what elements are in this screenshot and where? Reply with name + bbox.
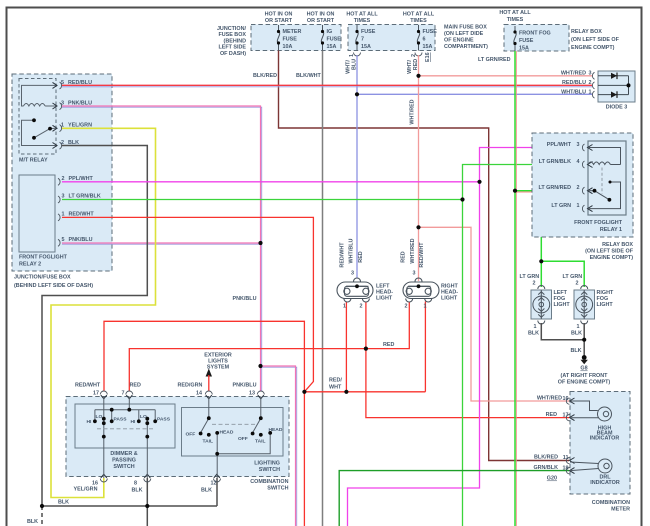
M/T relay pin marks bbox=[53, 82, 58, 148]
svg-text:17: 17 bbox=[93, 391, 99, 397]
wire BLK pin 12 drop bbox=[216, 478, 218, 506]
svg-text:GRN/BLK: GRN/BLK bbox=[533, 465, 558, 471]
svg-text:RED: RED bbox=[130, 383, 141, 389]
front foglight relay 1 inner box bbox=[588, 141, 626, 215]
svg-text:17: 17 bbox=[563, 413, 569, 419]
svg-text:SWITCH: SWITCH bbox=[113, 464, 134, 470]
svg-text:M/T RELAY: M/T RELAY bbox=[19, 158, 48, 164]
svg-text:BLU: BLU bbox=[352, 59, 358, 70]
junction dot PPL/WHT bbox=[477, 180, 481, 184]
svg-text:OFF: OFF bbox=[238, 436, 248, 442]
front fog fuse 15A bbox=[513, 26, 550, 52]
svg-text:TIMES: TIMES bbox=[507, 17, 524, 23]
svg-text:LT GRN/BLK: LT GRN/BLK bbox=[69, 194, 101, 200]
svg-text:COMBINATION: COMBINATION bbox=[592, 500, 630, 506]
svg-text:FUSE: FUSE bbox=[327, 37, 342, 43]
front foglight relay 2 box bbox=[19, 175, 55, 252]
svg-text:2: 2 bbox=[360, 304, 363, 310]
ground G8 bbox=[582, 355, 587, 360]
combination meter pin labels bbox=[533, 396, 562, 472]
svg-text:PPL/WHT: PPL/WHT bbox=[547, 142, 572, 148]
relay box label below bbox=[585, 242, 634, 261]
svg-text:3: 3 bbox=[351, 271, 354, 277]
junction dot BLK rail left bbox=[40, 504, 44, 508]
meter fuse 10A bbox=[277, 25, 302, 51]
svg-text:(BEHIND: (BEHIND bbox=[224, 38, 247, 44]
svg-text:RED/WHT: RED/WHT bbox=[75, 383, 101, 389]
combination switch bottom pin arcs bbox=[100, 479, 220, 483]
svg-text:BLK/WHT: BLK/WHT bbox=[296, 73, 322, 79]
svg-text:PASS: PASS bbox=[157, 417, 171, 423]
svg-text:BLK: BLK bbox=[571, 331, 582, 337]
dimmer switch mechanical dashed link bbox=[97, 428, 154, 430]
svg-text:DIODE 3: DIODE 3 bbox=[606, 105, 628, 111]
wire RED/WHT left headlight pin 1 drop bbox=[345, 302, 347, 392]
wire PNK/BLU from front foglight relay 2 pin 5 bbox=[62, 243, 262, 245]
front foglight relay 1 coil bbox=[588, 148, 621, 165]
svg-text:FUSE BOX: FUSE BOX bbox=[218, 32, 246, 38]
svg-text:RELAY BOX: RELAY BOX bbox=[571, 29, 602, 35]
svg-text:RED: RED bbox=[546, 412, 557, 418]
svg-text:WHT/RED: WHT/RED bbox=[561, 71, 586, 77]
svg-text:WHT/RED: WHT/RED bbox=[410, 99, 416, 124]
svg-text:1: 1 bbox=[577, 203, 580, 209]
svg-text:3: 3 bbox=[413, 271, 416, 277]
svg-text:7: 7 bbox=[361, 37, 364, 43]
svg-text:INDICATOR: INDICATOR bbox=[590, 480, 620, 486]
wire RED/WHT off page bottom bbox=[303, 392, 305, 526]
svg-text:RED/: RED/ bbox=[329, 378, 342, 384]
M/T relay pin numbers and wire labels bbox=[61, 80, 92, 146]
svg-text:7: 7 bbox=[122, 391, 125, 397]
wire BLK fog lights to ground bbox=[541, 323, 584, 340]
svg-text:G8: G8 bbox=[580, 366, 587, 372]
svg-text:HOT AT ALL: HOT AT ALL bbox=[346, 12, 378, 18]
svg-text:RELAY 2: RELAY 2 bbox=[19, 262, 41, 268]
svg-text:E16: E16 bbox=[425, 52, 431, 62]
M/T relay inner dashed box bbox=[19, 79, 56, 155]
wire WHT/RED branch to combination meter pin 16 bbox=[419, 227, 570, 401]
svg-text:LIGHT: LIGHT bbox=[441, 296, 458, 302]
svg-text:TIMES: TIMES bbox=[410, 18, 427, 24]
svg-text:2: 2 bbox=[589, 80, 592, 86]
svg-text:1: 1 bbox=[534, 324, 537, 330]
wire LT GRN from relay 1 pin 1 to fog lights bbox=[541, 209, 586, 287]
svg-text:FRONT FOGLIGHT: FRONT FOGLIGHT bbox=[19, 255, 68, 261]
svg-text:(ON LEFT SIDE OF: (ON LEFT SIDE OF bbox=[585, 249, 634, 255]
wire BLK/RED from meter fuse to combination meter pin 11 bbox=[279, 51, 570, 461]
svg-text:BLK: BLK bbox=[528, 331, 539, 337]
wire BLK ground rail bottom bbox=[42, 505, 217, 507]
hot in on or start label 1 bbox=[265, 12, 293, 25]
front foglight relay 1 pin arcs and arrows bbox=[582, 144, 584, 212]
svg-text:1: 1 bbox=[424, 304, 427, 310]
exterior lights system arrow and label bbox=[204, 353, 232, 371]
svg-text:15A: 15A bbox=[361, 44, 371, 50]
svg-text:PASS: PASS bbox=[114, 417, 128, 423]
svg-text:BLK/RED: BLK/RED bbox=[534, 455, 558, 461]
wire RED/WHT from relay 2 pin 1 bbox=[62, 217, 313, 391]
junction dot RED/WHT left headlight bbox=[344, 390, 348, 394]
svg-text:HI: HI bbox=[131, 419, 137, 425]
svg-text:RELAY BOX: RELAY BOX bbox=[602, 242, 633, 248]
right headlight label bbox=[441, 284, 458, 302]
wire RED/WHT headlight tie rail bbox=[304, 391, 425, 393]
svg-text:16: 16 bbox=[563, 396, 569, 402]
svg-text:PASSING: PASSING bbox=[112, 458, 136, 464]
svg-text:2: 2 bbox=[577, 185, 580, 191]
wire YEL/GRN from M/T relay pin 1 to dimmer switch pin 16 bbox=[51, 128, 156, 497]
wire GRN/BLK from combination meter pin 18 off page bbox=[339, 471, 569, 526]
svg-text:JUNCTION/: JUNCTION/ bbox=[217, 26, 247, 32]
right fog light bbox=[574, 290, 595, 319]
svg-text:RED/GRN: RED/GRN bbox=[178, 383, 203, 389]
svg-text:(ON LEFT SIDE OF: (ON LEFT SIDE OF bbox=[571, 37, 620, 43]
svg-text:WHT/RED: WHT/RED bbox=[410, 238, 416, 263]
junction/fuse box (behind left side of dash) dashed box bbox=[12, 74, 112, 271]
svg-text:OR START: OR START bbox=[307, 18, 335, 24]
wire BLK from M/T relay pin 2 to ground rail bbox=[42, 146, 147, 507]
svg-text:WHT/RED: WHT/RED bbox=[537, 396, 562, 402]
main fuse box dashed box with fuse 7 and fuse 6 bbox=[348, 25, 435, 51]
svg-text:FUSE: FUSE bbox=[519, 38, 534, 44]
junction dot BLK rail mid bbox=[145, 504, 149, 508]
svg-text:MAIN FUSE BOX: MAIN FUSE BOX bbox=[444, 25, 487, 31]
wire RED/WHT from dimmer switch pin 17 bbox=[104, 321, 304, 392]
svg-text:FUSE: FUSE bbox=[361, 29, 376, 35]
dimmer and passing switch label bbox=[110, 451, 137, 470]
svg-text:LT GRN/RED: LT GRN/RED bbox=[478, 57, 511, 63]
hot at all times label 1 bbox=[346, 12, 378, 25]
svg-text:2: 2 bbox=[405, 304, 408, 310]
wire BLK/WHT from IG fuse off page bottom bbox=[322, 51, 324, 526]
wire PPL/WHT from relay 2 pin 2 to relay 1 pin 3 and off page bbox=[62, 181, 480, 183]
svg-text:3: 3 bbox=[589, 71, 592, 77]
svg-text:HEAD: HEAD bbox=[269, 427, 283, 433]
svg-text:5: 5 bbox=[62, 237, 65, 243]
svg-text:2: 2 bbox=[411, 54, 417, 57]
pin 1 arc below fuse 7 bbox=[354, 53, 361, 57]
svg-text:METER: METER bbox=[283, 29, 302, 35]
svg-text:DIMMER &: DIMMER & bbox=[110, 451, 137, 457]
right headlight bbox=[403, 278, 439, 302]
front foglight relay 1 armature dashed link bbox=[601, 168, 603, 195]
svg-text:FRONT FOGLIGHT: FRONT FOGLIGHT bbox=[574, 220, 623, 226]
svg-text:15A: 15A bbox=[519, 46, 529, 52]
diode 3 box bbox=[598, 71, 635, 102]
svg-text:14: 14 bbox=[196, 391, 202, 397]
svg-text:LT GRN: LT GRN bbox=[520, 274, 540, 280]
svg-text:LIGHTING: LIGHTING bbox=[254, 461, 280, 467]
svg-text:OFF: OFF bbox=[186, 432, 196, 438]
svg-text:RED/WHT: RED/WHT bbox=[69, 212, 95, 218]
wire BLK pin 8 drop off page bbox=[146, 478, 148, 526]
svg-text:1: 1 bbox=[577, 324, 580, 330]
svg-text:2: 2 bbox=[62, 176, 65, 182]
svg-text:WHT: WHT bbox=[329, 385, 342, 391]
svg-text:LT GRN/BLK: LT GRN/BLK bbox=[539, 159, 571, 165]
wire BLK dashed continuation off page bbox=[41, 506, 43, 526]
wire RED/GRN arrow to lighting switch pin 14 bbox=[208, 375, 210, 392]
svg-text:ENGINE COMPT): ENGINE COMPT) bbox=[590, 255, 634, 261]
svg-text:BLK: BLK bbox=[132, 488, 143, 494]
svg-text:HI: HI bbox=[87, 419, 93, 425]
svg-text:1: 1 bbox=[589, 90, 592, 96]
M/T relay coil between pin 5 and pin 3 bbox=[22, 85, 57, 106]
relay box (on left side of engine compt) label top bbox=[571, 29, 620, 51]
svg-text:WHT/BLU: WHT/BLU bbox=[349, 238, 355, 263]
svg-text:OR START: OR START bbox=[265, 18, 293, 24]
svg-text:PNK/BLU: PNK/BLU bbox=[69, 237, 93, 243]
wire WHT/BLU from fuse 7 to left headlight pin 3 bbox=[356, 55, 358, 278]
svg-text:RED: RED bbox=[401, 251, 407, 262]
front foglight relay 1 switch bbox=[588, 182, 621, 209]
svg-text:PNK/BLU: PNK/BLU bbox=[233, 383, 257, 389]
fuse 6 15A bbox=[417, 25, 437, 51]
svg-text:HOT AT ALL: HOT AT ALL bbox=[403, 12, 435, 18]
M/T relay switch pin 1 / pin 2 bbox=[22, 120, 57, 145]
diode symbols bbox=[611, 73, 617, 79]
wire PNK/BLU from M/T relay pin 3 down to lighting switch pin 13 bbox=[62, 107, 262, 391]
svg-text:LT GRN/RED: LT GRN/RED bbox=[538, 185, 571, 191]
dimmer switch internal wiring bbox=[95, 397, 155, 479]
wire LT GRN/RED from front fog fuse to relay 1 pin 2 and off page bbox=[515, 51, 517, 526]
svg-text:HOT IN ON: HOT IN ON bbox=[307, 12, 335, 18]
left headlight bbox=[337, 278, 373, 302]
combination switch dashed box bbox=[66, 397, 289, 477]
svg-text:SWITCH: SWITCH bbox=[259, 467, 280, 473]
svg-text:2: 2 bbox=[576, 281, 579, 287]
svg-text:SWITCH: SWITCH bbox=[267, 486, 288, 492]
svg-text:SYSTEM: SYSTEM bbox=[207, 365, 230, 371]
svg-text:1: 1 bbox=[349, 54, 355, 57]
wire RED/WHT right headlight pin 1 drop bbox=[424, 302, 426, 392]
svg-text:OF ENGINE: OF ENGINE bbox=[444, 38, 474, 44]
wire PNK/BLU branch off page bottom bbox=[261, 367, 297, 526]
junction dot WHT/RED top bbox=[416, 74, 420, 78]
wire RED/BLU from M/T relay pin 5 to diode 3 pin 2 bbox=[62, 86, 592, 88]
relay box dashed box around front foglight relay 1 bbox=[532, 133, 633, 237]
svg-text:RED/WHT: RED/WHT bbox=[340, 242, 346, 268]
svg-text:LIGHT: LIGHT bbox=[597, 302, 614, 308]
svg-text:HEAD: HEAD bbox=[220, 430, 234, 436]
svg-text:RED: RED bbox=[383, 342, 394, 348]
svg-text:BLK: BLK bbox=[201, 488, 212, 494]
hot at all times label 2 bbox=[403, 12, 435, 25]
svg-text:FUSE: FUSE bbox=[423, 29, 438, 35]
svg-text:YEL/GRN: YEL/GRN bbox=[74, 487, 98, 493]
wire RED from dimmer pin 7 to headlights pin 2 bbox=[129, 302, 409, 391]
junction dot RED/WHT rail bbox=[302, 390, 306, 394]
svg-text:LT GRN: LT GRN bbox=[551, 203, 571, 209]
svg-text:WHT/BLU: WHT/BLU bbox=[561, 90, 586, 96]
svg-text:11: 11 bbox=[563, 455, 569, 461]
svg-text:LO: LO bbox=[96, 414, 103, 420]
hot in on or start label 2 bbox=[307, 12, 335, 25]
junction dot LT GRN bbox=[539, 259, 543, 263]
combination switch top pin arcs bbox=[100, 391, 264, 394]
lighting switch contact dots bbox=[199, 416, 272, 455]
svg-text:(AT RIGHT FRONT: (AT RIGHT FRONT bbox=[561, 373, 609, 379]
svg-text:(ON LEFT DIDE: (ON LEFT DIDE bbox=[444, 31, 484, 37]
svg-text:COMBINATION: COMBINATION bbox=[250, 479, 288, 485]
svg-text:LO: LO bbox=[140, 414, 147, 420]
svg-text:FRONT FOG: FRONT FOG bbox=[519, 31, 551, 37]
junction dot WHT/BLU bbox=[355, 92, 359, 96]
diode 3 pin arcs bbox=[592, 72, 594, 98]
junction dot RED bbox=[364, 347, 368, 351]
junction fuse box (dash) dashed box with METER and IG fuses bbox=[251, 25, 341, 51]
svg-text:ENGINE COMPT): ENGINE COMPT) bbox=[571, 45, 615, 51]
wire WHT/RED branch to diode 3 pin 3 bbox=[419, 75, 593, 77]
main fuse box label bbox=[444, 25, 488, 51]
svg-text:PNK/BLU: PNK/BLU bbox=[233, 296, 257, 302]
svg-text:10A: 10A bbox=[283, 44, 293, 50]
svg-text:12: 12 bbox=[211, 481, 217, 487]
svg-text:3: 3 bbox=[577, 142, 580, 148]
front foglight relay 1 pin labels bbox=[538, 142, 571, 209]
svg-text:3: 3 bbox=[62, 194, 65, 200]
wire LT GRN/BLK from relay 2 pin 3 to relay 1 pin 4 and off page bbox=[62, 199, 463, 201]
junction dot LT GRN/RED bbox=[513, 189, 517, 193]
dimmer switch position labels bbox=[87, 414, 171, 425]
combination meter pin arcs bbox=[566, 398, 569, 474]
junction dot LT GRN/BLK bbox=[460, 197, 464, 201]
svg-text:METER: METER bbox=[611, 507, 630, 513]
svg-text:6: 6 bbox=[423, 37, 426, 43]
svg-text:TAIL: TAIL bbox=[255, 439, 266, 445]
svg-text:JUNCTION/FUSE BOX: JUNCTION/FUSE BOX bbox=[14, 275, 71, 281]
svg-text:BLK: BLK bbox=[27, 519, 38, 525]
high beam indicator bbox=[570, 401, 612, 421]
wire RED left headlight pin 2 to meter pin 17 bbox=[366, 302, 569, 418]
ig fuse 15A bbox=[321, 25, 341, 51]
front foglight relay 2 pin arcs bbox=[58, 178, 60, 246]
svg-text:LEFT SIDE: LEFT SIDE bbox=[218, 45, 246, 51]
left fog light bbox=[531, 290, 552, 319]
combination meter dashed box bbox=[570, 392, 630, 495]
diode 3 pin labels bbox=[561, 71, 586, 96]
svg-text:(BEHIND LEFT SIDE OF DASH): (BEHIND LEFT SIDE OF DASH) bbox=[14, 283, 93, 289]
svg-text:IG: IG bbox=[327, 29, 333, 35]
svg-text:LIGHT: LIGHT bbox=[554, 302, 571, 308]
dimmer and passing switch inner box bbox=[75, 404, 175, 448]
svg-text:BLK: BLK bbox=[571, 348, 582, 354]
svg-text:BLK: BLK bbox=[58, 500, 69, 506]
junction dot PNK/BLU bbox=[258, 241, 262, 245]
front foglight relay 2 pin numbers and labels bbox=[62, 176, 101, 243]
svg-text:LIGHT: LIGHT bbox=[376, 296, 393, 302]
svg-text:15A: 15A bbox=[423, 44, 433, 50]
svg-text:TAIL: TAIL bbox=[203, 439, 214, 445]
svg-text:4: 4 bbox=[577, 159, 580, 165]
wire WHT/RED from fuse 6 to right headlight pin 3 bbox=[418, 55, 420, 281]
diode 3 internal wiring bbox=[598, 76, 629, 95]
svg-text:RED: RED bbox=[413, 59, 419, 70]
svg-text:1: 1 bbox=[62, 212, 65, 218]
lighting switch internal wiring bbox=[201, 397, 270, 479]
left headlight label bbox=[376, 284, 393, 302]
wire WHT/BLU branch to diode 3 pin 1 bbox=[357, 93, 592, 95]
svg-text:TIMES: TIMES bbox=[354, 18, 371, 24]
diode 3 junction dot bbox=[627, 83, 631, 87]
svg-text:2: 2 bbox=[533, 281, 536, 287]
svg-text:15A: 15A bbox=[327, 44, 337, 50]
svg-text:RED/BLU: RED/BLU bbox=[562, 80, 586, 86]
svg-text:BLK/RED: BLK/RED bbox=[253, 73, 277, 79]
relay box dashed box with front fog fuse bbox=[504, 25, 569, 52]
svg-text:HOT IN ON: HOT IN ON bbox=[265, 12, 293, 18]
lighting switch inner box bbox=[182, 408, 284, 457]
svg-text:1: 1 bbox=[343, 304, 346, 310]
junction dot PNK/BLU lower bbox=[258, 364, 262, 368]
svg-text:RELAY 1: RELAY 1 bbox=[600, 227, 622, 233]
svg-text:HOT AT ALL: HOT AT ALL bbox=[499, 10, 531, 16]
svg-text:COMPARTMENT): COMPARTMENT) bbox=[444, 44, 488, 50]
lighting switch mechanical dashed link bbox=[212, 423, 257, 425]
svg-text:18: 18 bbox=[563, 466, 569, 472]
svg-text:INDICATOR: INDICATOR bbox=[590, 436, 620, 442]
svg-text:8: 8 bbox=[134, 481, 137, 487]
svg-text:G20: G20 bbox=[547, 476, 557, 482]
svg-text:OF ENGINE COMPT): OF ENGINE COMPT) bbox=[558, 380, 611, 386]
svg-text:RED: RED bbox=[358, 251, 364, 262]
svg-text:PPL/WHT: PPL/WHT bbox=[69, 176, 94, 182]
junction/fuse box (behind left side of dash) label top bbox=[217, 26, 247, 57]
lighting switch position labels bbox=[186, 427, 283, 445]
svg-text:RED/WHT: RED/WHT bbox=[419, 242, 425, 268]
fuse 7 15A bbox=[355, 25, 375, 51]
junction dot WHT/RED mid bbox=[416, 225, 420, 229]
dimmer switch contact dots bbox=[93, 408, 157, 439]
svg-text:13: 13 bbox=[249, 391, 255, 397]
hot at all times label 3 bbox=[499, 10, 531, 23]
pin 2 arc below fuse 6 bbox=[415, 53, 422, 57]
svg-text:LT GRN: LT GRN bbox=[563, 274, 583, 280]
svg-text:FUSE: FUSE bbox=[283, 37, 298, 43]
DRL indicator bbox=[570, 459, 612, 473]
svg-text:OF DASH): OF DASH) bbox=[220, 51, 246, 57]
